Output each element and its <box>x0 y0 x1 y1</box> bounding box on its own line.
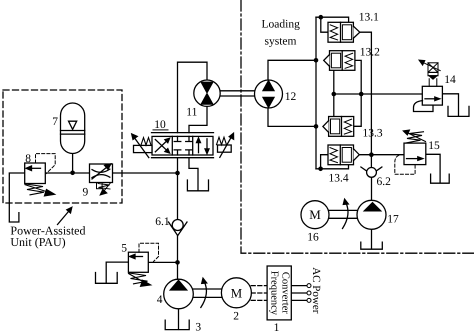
wire: rail junction down to check 6.2 <box>370 155 372 167</box>
hydraulic pump 12 <box>255 80 283 108</box>
svg-text:14: 14 <box>444 74 456 86</box>
wire: motor11 bottom to valve10 B-port <box>189 106 207 132</box>
tank 3 <box>165 320 189 329</box>
svg-text:Unit (PAU): Unit (PAU) <box>10 235 65 249</box>
wire: pump12 bottom to node rail <box>268 108 316 126</box>
AC terminals <box>307 284 311 303</box>
pump 17 <box>357 200 386 229</box>
wire: bottom line into 13.4 <box>316 165 349 169</box>
variable throttle 9 <box>90 164 113 195</box>
wire: valve5 to main riser <box>148 261 177 263</box>
wire: left rail of check-valve bridge <box>315 17 317 169</box>
PAU dashed enclosure <box>3 90 122 203</box>
wire: valve14 outlet to tank <box>442 94 458 116</box>
svg-text:Converter: Converter <box>279 272 290 314</box>
tank at valve 15 <box>431 174 450 183</box>
wire: converter to AC terminals <box>291 286 307 301</box>
check valve 6.2 <box>361 167 382 177</box>
wire: pump12 top to node rail <box>268 60 316 80</box>
rotation arrow at shaft 16-17 <box>343 199 349 228</box>
svg-text:16: 16 <box>307 231 319 243</box>
wire: main riser valve10 P-port down to pump 4 <box>177 158 179 279</box>
wire: check 6.2 to pump17 top <box>371 178 373 201</box>
svg-text:13.4: 13.4 <box>329 173 349 185</box>
tank under pump 17 <box>361 242 383 249</box>
tank at valve 5 <box>96 273 118 284</box>
relief valve 14 <box>414 60 443 111</box>
right solenoid of valve 10 <box>217 133 234 157</box>
tank at valve 14 <box>448 106 469 116</box>
svg-text:3: 3 <box>195 322 201 334</box>
wire: top line into 13.1 <box>316 17 349 22</box>
wire: shaft between 4 and 2 <box>193 289 222 297</box>
wire: shaft between 11 and 12 <box>220 91 254 96</box>
svg-text:15: 15 <box>428 140 440 152</box>
svg-text:13.3: 13.3 <box>363 127 383 139</box>
svg-text:7: 7 <box>52 116 58 128</box>
relief valve 5 <box>128 243 158 286</box>
check valve 13.2 <box>324 51 355 71</box>
check valve 13.4 <box>328 145 359 165</box>
svg-text:6.2: 6.2 <box>377 176 392 188</box>
wire: pump17 bottom to tank <box>371 229 373 249</box>
wire: 13.4 left step down <box>321 155 328 169</box>
underline of label 10 <box>153 129 169 131</box>
check valve 6.1 <box>169 220 188 236</box>
wire: PAU main line valve8 to throttle9 to node <box>45 172 177 174</box>
wire: accumulator drop line <box>72 154 74 174</box>
svg-text:Frequency: Frequency <box>269 271 280 316</box>
wire: shaft between 16 and 17 <box>329 210 357 218</box>
electric motor 16 <box>301 201 329 229</box>
svg-text:M: M <box>309 207 321 222</box>
left solenoid of valve 10 <box>132 134 152 158</box>
pump 4 <box>164 279 194 309</box>
svg-text:9: 9 <box>83 187 89 199</box>
check valve 13.1 <box>328 22 360 42</box>
svg-text:13.2: 13.2 <box>360 46 380 58</box>
directional valve 10 <box>152 133 214 158</box>
svg-text:4: 4 <box>157 294 163 306</box>
rotation arrow at shaft 4-2 <box>201 278 207 307</box>
hydraulic motor 11 <box>194 80 220 106</box>
wire: valve15 outlet to tank <box>426 154 440 183</box>
svg-text:13.1: 13.1 <box>359 11 379 23</box>
svg-text:11: 11 <box>186 107 197 119</box>
loading system dash-dot enclosure <box>241 0 474 253</box>
svg-text:M: M <box>231 285 243 300</box>
wire: valve10 T-port to tank <box>189 158 198 191</box>
svg-text:5: 5 <box>121 243 127 255</box>
svg-text:Loading: Loading <box>262 19 301 31</box>
wire: valve10 A-port to motor11 top <box>178 62 208 132</box>
svg-text:17: 17 <box>387 213 399 225</box>
wire: 13.1 outlet to right rail <box>360 32 372 155</box>
svg-text:AC Power: AC Power <box>310 267 322 313</box>
svg-text:2: 2 <box>233 310 239 322</box>
relief valve 8 <box>25 154 56 196</box>
electric motor 2 <box>221 278 251 308</box>
wire: 13.2 bottom down to 13.3 top <box>333 70 335 116</box>
svg-text:8: 8 <box>25 153 31 165</box>
wire: pump4 bottom to tank 3 <box>178 309 180 330</box>
wire: 13.2 right side down to 13.3 right side <box>354 60 362 126</box>
relief valve 15 <box>395 130 426 174</box>
wire: 13.4 outlet to valve 15 <box>359 154 404 156</box>
svg-text:12: 12 <box>285 91 297 103</box>
wire: cross line to valve 14 <box>334 93 423 95</box>
tank under valve 10 <box>187 180 208 191</box>
check valve 13.3 <box>323 117 354 137</box>
wire: valve8 left drain <box>9 173 24 222</box>
wire: dashed leads motor2 to converter <box>251 286 267 301</box>
wire: pilot step into 13.1 left <box>321 17 328 32</box>
svg-text:system: system <box>265 35 297 47</box>
wire: valve5 left outlet to tank <box>106 262 128 283</box>
svg-text:6.1: 6.1 <box>155 216 170 228</box>
accumulator 7 <box>61 103 85 154</box>
frequency converter 1 <box>267 266 291 320</box>
label arrow to PAU box <box>58 207 72 224</box>
svg-text:1: 1 <box>274 322 280 334</box>
